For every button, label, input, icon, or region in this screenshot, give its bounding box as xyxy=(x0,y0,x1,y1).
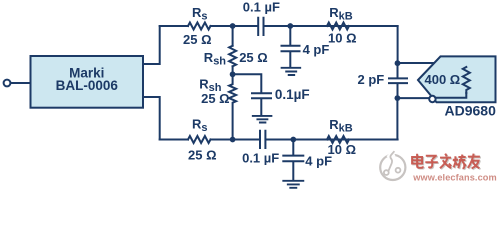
node top B junction dot xyxy=(287,23,293,29)
svg-text:2 pF: 2 pF xyxy=(358,72,385,87)
wire bottom 4pF lead xyxy=(292,140,294,155)
resistor Rsh lower 25 ohm zigzag xyxy=(229,74,236,139)
wire top rail right corner down xyxy=(397,26,399,63)
wire input to balun xyxy=(11,82,31,84)
svg-text:BAL-0006: BAL-0006 xyxy=(56,78,119,93)
ADC U2 AD9680 body polygon xyxy=(418,56,496,102)
watermark hanzi dian xyxy=(412,154,424,169)
capacitor C6 4pF bottom plates xyxy=(283,156,303,162)
wire top 4pF lead xyxy=(289,26,291,45)
wire middle node to shunt cap xyxy=(233,74,262,92)
wire balun bottom output stub xyxy=(143,97,160,140)
balun U1 Marki BAL-0006 box xyxy=(31,56,144,108)
capacitor C1 0.1uF top series plates xyxy=(258,18,263,35)
svg-text:www.elecfans.com: www.elecfans.com xyxy=(412,173,496,183)
svg-text:RkB: RkB xyxy=(329,117,353,135)
ground bottom xyxy=(283,181,303,188)
svg-text:25 Ω: 25 Ω xyxy=(188,148,217,163)
wire bottom rail from cap to corner xyxy=(266,139,397,141)
watermark hanzi zi xyxy=(425,156,439,169)
wire ADC internal bottom xyxy=(437,93,467,98)
wire Rsh chain upper lead xyxy=(232,26,234,46)
resistor Rs bottom 25 ohm zigzag xyxy=(188,136,211,143)
svg-text:0.1 µF: 0.1 µF xyxy=(242,151,279,166)
svg-text:Rs: Rs xyxy=(192,117,208,135)
svg-text:4 pF: 4 pF xyxy=(303,42,330,57)
node 2pF top junction dot xyxy=(395,60,401,66)
wire 2pF vertical segments xyxy=(397,63,399,98)
node bottom B junction dot xyxy=(290,137,296,143)
wire top 4pF to ground xyxy=(289,52,291,67)
svg-text:400 Ω: 400 Ω xyxy=(425,72,461,87)
watermark hanzi shao xyxy=(454,155,467,170)
resistor Rsh upper 25 ohm zigzag xyxy=(229,46,236,67)
watermark hanzi you xyxy=(468,154,481,170)
wire top node into ADC internal to 400ohm xyxy=(398,63,467,67)
svg-text:0.1 µF: 0.1 µF xyxy=(243,0,280,15)
wire top rail left xyxy=(160,25,188,27)
wire bottom rail left xyxy=(160,139,188,141)
wire top rail to series cap xyxy=(211,25,258,27)
wire top rail from cap to corner xyxy=(265,25,398,27)
resistor RkB bottom 10 ohm zigzag xyxy=(327,136,349,143)
capacitor C2 4pF top plates xyxy=(282,46,300,52)
input terminal circle xyxy=(4,80,11,87)
svg-text:10 Ω: 10 Ω xyxy=(328,31,357,46)
node bottom A junction dot xyxy=(230,137,236,143)
node 2pF bottom junction dot xyxy=(395,95,401,101)
capacitor C3 0.1uF middle shunt plates xyxy=(252,93,271,98)
wire bottom 4pF to ground xyxy=(292,162,294,180)
svg-text:25 Ω: 25 Ω xyxy=(183,32,212,47)
svg-text:25 Ω: 25 Ω xyxy=(239,50,268,65)
capacitor C5 2pF plates xyxy=(389,78,407,83)
ground top xyxy=(282,68,301,75)
resistor 400 ohm internal zigzag xyxy=(463,67,470,93)
resistor Rs top 25 ohm zigzag xyxy=(188,23,211,30)
pin VIN- open circle xyxy=(429,96,435,102)
svg-text:25 Ω: 25 Ω xyxy=(201,91,230,106)
resistor RkB top 10 ohm zigzag xyxy=(327,23,349,30)
wire bottom rail to series cap xyxy=(211,139,260,141)
ground middle xyxy=(253,116,272,123)
svg-text:10 Ω: 10 Ω xyxy=(328,142,357,157)
svg-text:RkB: RkB xyxy=(329,5,353,23)
wire balun top output stub xyxy=(143,26,160,64)
wire Rsh middle lead xyxy=(232,66,234,74)
wire shunt cap to ground xyxy=(260,99,262,115)
svg-text:Rsh: Rsh xyxy=(204,50,227,68)
svg-text:0.1µF: 0.1µF xyxy=(275,87,310,102)
capacitor C4 0.1uF bottom series plates xyxy=(260,131,265,148)
node top A junction dot xyxy=(230,23,236,29)
watermark hanzi fa xyxy=(440,154,452,170)
wire bottom node to ADC pin xyxy=(397,97,429,99)
watermark logo circle xyxy=(380,151,405,180)
svg-text:AD9680: AD9680 xyxy=(445,102,497,118)
wire bottom node down to bottom rail xyxy=(396,98,398,139)
node middle junction dot xyxy=(230,71,236,77)
svg-text:Rs: Rs xyxy=(192,5,208,23)
